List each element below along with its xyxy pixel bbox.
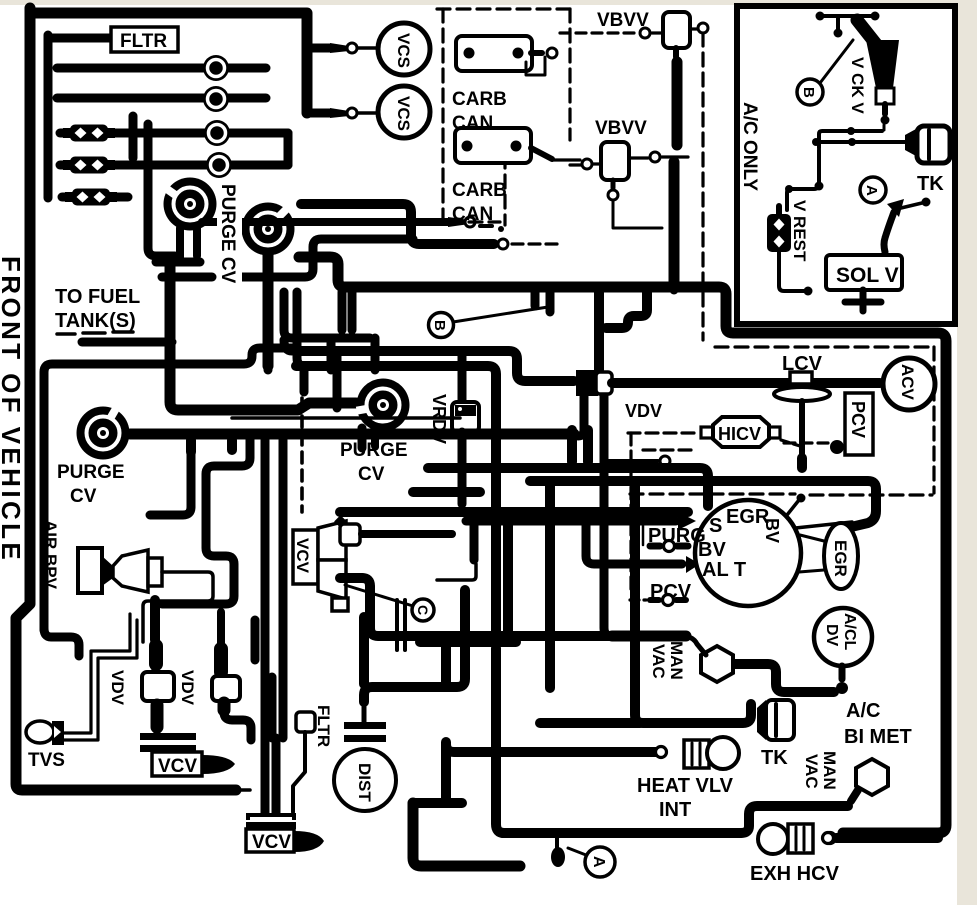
svg-text:PURGE: PURGE <box>340 440 408 461</box>
svg-text:AL T: AL T <box>702 559 746 581</box>
svg-text:BV: BV <box>762 518 782 543</box>
svg-text:CARB: CARB <box>452 89 507 110</box>
svg-text:B: B <box>431 320 448 331</box>
svg-text:PURGE CV: PURGE CV <box>217 184 238 284</box>
svg-text:VAC: VAC <box>649 644 668 679</box>
svg-text:VDV: VDV <box>625 401 662 421</box>
svg-text:VCV: VCV <box>158 756 197 777</box>
svg-text:CV: CV <box>70 486 97 507</box>
svg-text:CAN: CAN <box>452 204 493 225</box>
svg-text:AIR BPV: AIR BPV <box>41 520 60 590</box>
svg-text:TK: TK <box>917 173 944 195</box>
svg-text:DV: DV <box>823 624 840 647</box>
svg-text:MAN: MAN <box>667 641 686 680</box>
svg-text:TK: TK <box>761 747 788 769</box>
svg-text:A/CL: A/CL <box>841 613 858 651</box>
svg-text:A/C: A/C <box>846 700 880 722</box>
svg-text:A: A <box>590 856 607 868</box>
svg-text:A/C ONLY: A/C ONLY <box>739 102 760 191</box>
svg-text:TANK(S): TANK(S) <box>55 310 136 332</box>
svg-text:A: A <box>863 185 880 196</box>
svg-text:CV: CV <box>358 464 385 485</box>
svg-text:VDV: VDV <box>108 670 127 706</box>
svg-text:S: S <box>709 515 722 537</box>
svg-text:HICV: HICV <box>718 424 761 444</box>
svg-text:ACV: ACV <box>898 364 917 401</box>
svg-text:DIST: DIST <box>355 763 374 802</box>
svg-text:TO FUEL: TO FUEL <box>55 286 140 308</box>
svg-text:VAC: VAC <box>802 754 821 789</box>
svg-text:SOL V: SOL V <box>836 264 899 287</box>
svg-text:TVS: TVS <box>28 750 65 771</box>
svg-text:PURGE: PURGE <box>57 462 125 483</box>
svg-text:EXH HCV: EXH HCV <box>750 863 840 885</box>
svg-text:MAN: MAN <box>820 751 839 790</box>
svg-text:BI MET: BI MET <box>844 726 912 748</box>
svg-text:FLTR: FLTR <box>120 31 167 52</box>
svg-text:FRONT OF VEHICLE: FRONT OF VEHICLE <box>0 256 26 563</box>
svg-text:VBVV: VBVV <box>595 118 647 139</box>
svg-text:V CK V: V CK V <box>848 57 867 114</box>
svg-text:B: B <box>800 87 817 98</box>
svg-text:HEAT VLV: HEAT VLV <box>637 775 734 797</box>
svg-text:INT: INT <box>659 799 691 821</box>
svg-text:VCV: VCV <box>252 832 291 853</box>
svg-text:VCV: VCV <box>293 538 312 574</box>
svg-text:VCS: VCS <box>394 96 413 131</box>
svg-text:V REST: V REST <box>790 200 809 262</box>
svg-text:C: C <box>415 605 431 615</box>
svg-text:PCV: PCV <box>848 401 868 438</box>
svg-text:CARB: CARB <box>452 180 507 201</box>
svg-text:VCS: VCS <box>394 33 413 68</box>
svg-text:EGR: EGR <box>831 540 850 577</box>
svg-text:VDV: VDV <box>178 670 197 706</box>
svg-text:FLTR: FLTR <box>314 705 333 747</box>
